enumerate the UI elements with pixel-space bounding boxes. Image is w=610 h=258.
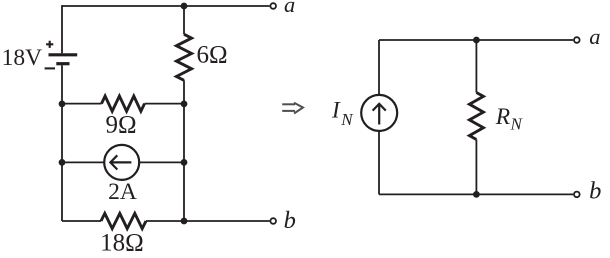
label 9-ohm value: [105, 112, 136, 139]
wire left rail of right circuit above current source: [378, 40, 380, 95]
terminal b of left circuit (open circle): [270, 218, 276, 224]
label 2A value of current source: [108, 179, 137, 205]
wire bottom rail of right circuit: [379, 193, 573, 195]
svg-text:6Ω: 6Ω: [196, 42, 227, 69]
junction node on middle rail at 9-ohm row: [181, 101, 188, 108]
label 6-ohm value: [196, 42, 227, 69]
junction node on left rail at current-source row: [59, 159, 66, 166]
wire 9-ohm row right segment: [145, 103, 185, 105]
resistor 9-ohm zigzag: [102, 96, 145, 111]
terminal a of right circuit (open circle): [574, 37, 580, 43]
wire 9-ohm row left segment: [62, 103, 102, 105]
label b terminal of right circuit: [589, 177, 601, 204]
resistor 6-ohm zigzag: [176, 34, 191, 80]
current source I1 2A circle with left arrow: [104, 145, 139, 180]
label 18V value of battery: [2, 45, 43, 71]
svg-text:R: R: [495, 104, 510, 130]
label RN of resistor: [495, 104, 524, 134]
junction node at top of 6-ohm branch: [181, 3, 188, 10]
wire left rail above battery: [61, 5, 63, 53]
label IN of current source: [331, 97, 354, 129]
wire RN branch lower segment: [475, 140, 477, 195]
terminal b of right circuit (open circle): [574, 192, 580, 198]
wire left rail below battery to bottom-left corner: [61, 65, 63, 221]
resistor RN zigzag: [469, 93, 483, 140]
wire top rail of right circuit: [379, 39, 573, 41]
junction node on middle rail at current-source row: [181, 159, 188, 166]
label a terminal of left circuit: [284, 0, 295, 17]
svg-text:b: b: [589, 177, 601, 204]
wire middle rail from 6-ohm resistor down to bottom wire: [183, 80, 185, 221]
label b terminal of left circuit: [284, 207, 296, 234]
svg-text:I: I: [331, 97, 341, 122]
svg-text:b: b: [284, 207, 296, 234]
wire left rail of right circuit below current source: [378, 131, 380, 194]
wire top rail of left circuit from battery to terminal a: [62, 5, 270, 7]
wire RN branch upper segment: [475, 40, 477, 93]
svg-text:N: N: [510, 115, 524, 134]
implication double arrow between circuits: [282, 103, 303, 114]
wire current-source row left segment: [62, 161, 104, 163]
wire current-source row right segment: [139, 161, 184, 163]
current source IN circle with up arrow: [361, 95, 397, 131]
wire middle rail from top node down to 6-ohm resistor: [183, 6, 185, 34]
terminal a of left circuit (open circle): [270, 3, 276, 9]
junction node on middle rail at bottom wire: [181, 218, 188, 225]
junction node on left rail at 9-ohm row: [59, 101, 66, 108]
svg-text:a: a: [284, 0, 295, 17]
svg-text:a: a: [589, 24, 600, 49]
label 18-ohm value: [100, 229, 144, 256]
junction node at bottom of RN branch: [473, 191, 480, 198]
wire bottom rail right segment to terminal b: [146, 220, 270, 222]
junction node at top of RN branch: [473, 37, 480, 44]
svg-text:N: N: [340, 110, 354, 129]
svg-text:18V: 18V: [2, 45, 43, 71]
svg-text:2A: 2A: [108, 179, 137, 205]
wire bottom rail left segment: [62, 220, 101, 222]
label a terminal of right circuit: [589, 24, 600, 49]
svg-text:9Ω: 9Ω: [105, 112, 136, 139]
battery V1 18V: [45, 41, 78, 69]
svg-text:18Ω: 18Ω: [100, 229, 144, 256]
resistor 18-ohm zigzag: [101, 213, 146, 228]
